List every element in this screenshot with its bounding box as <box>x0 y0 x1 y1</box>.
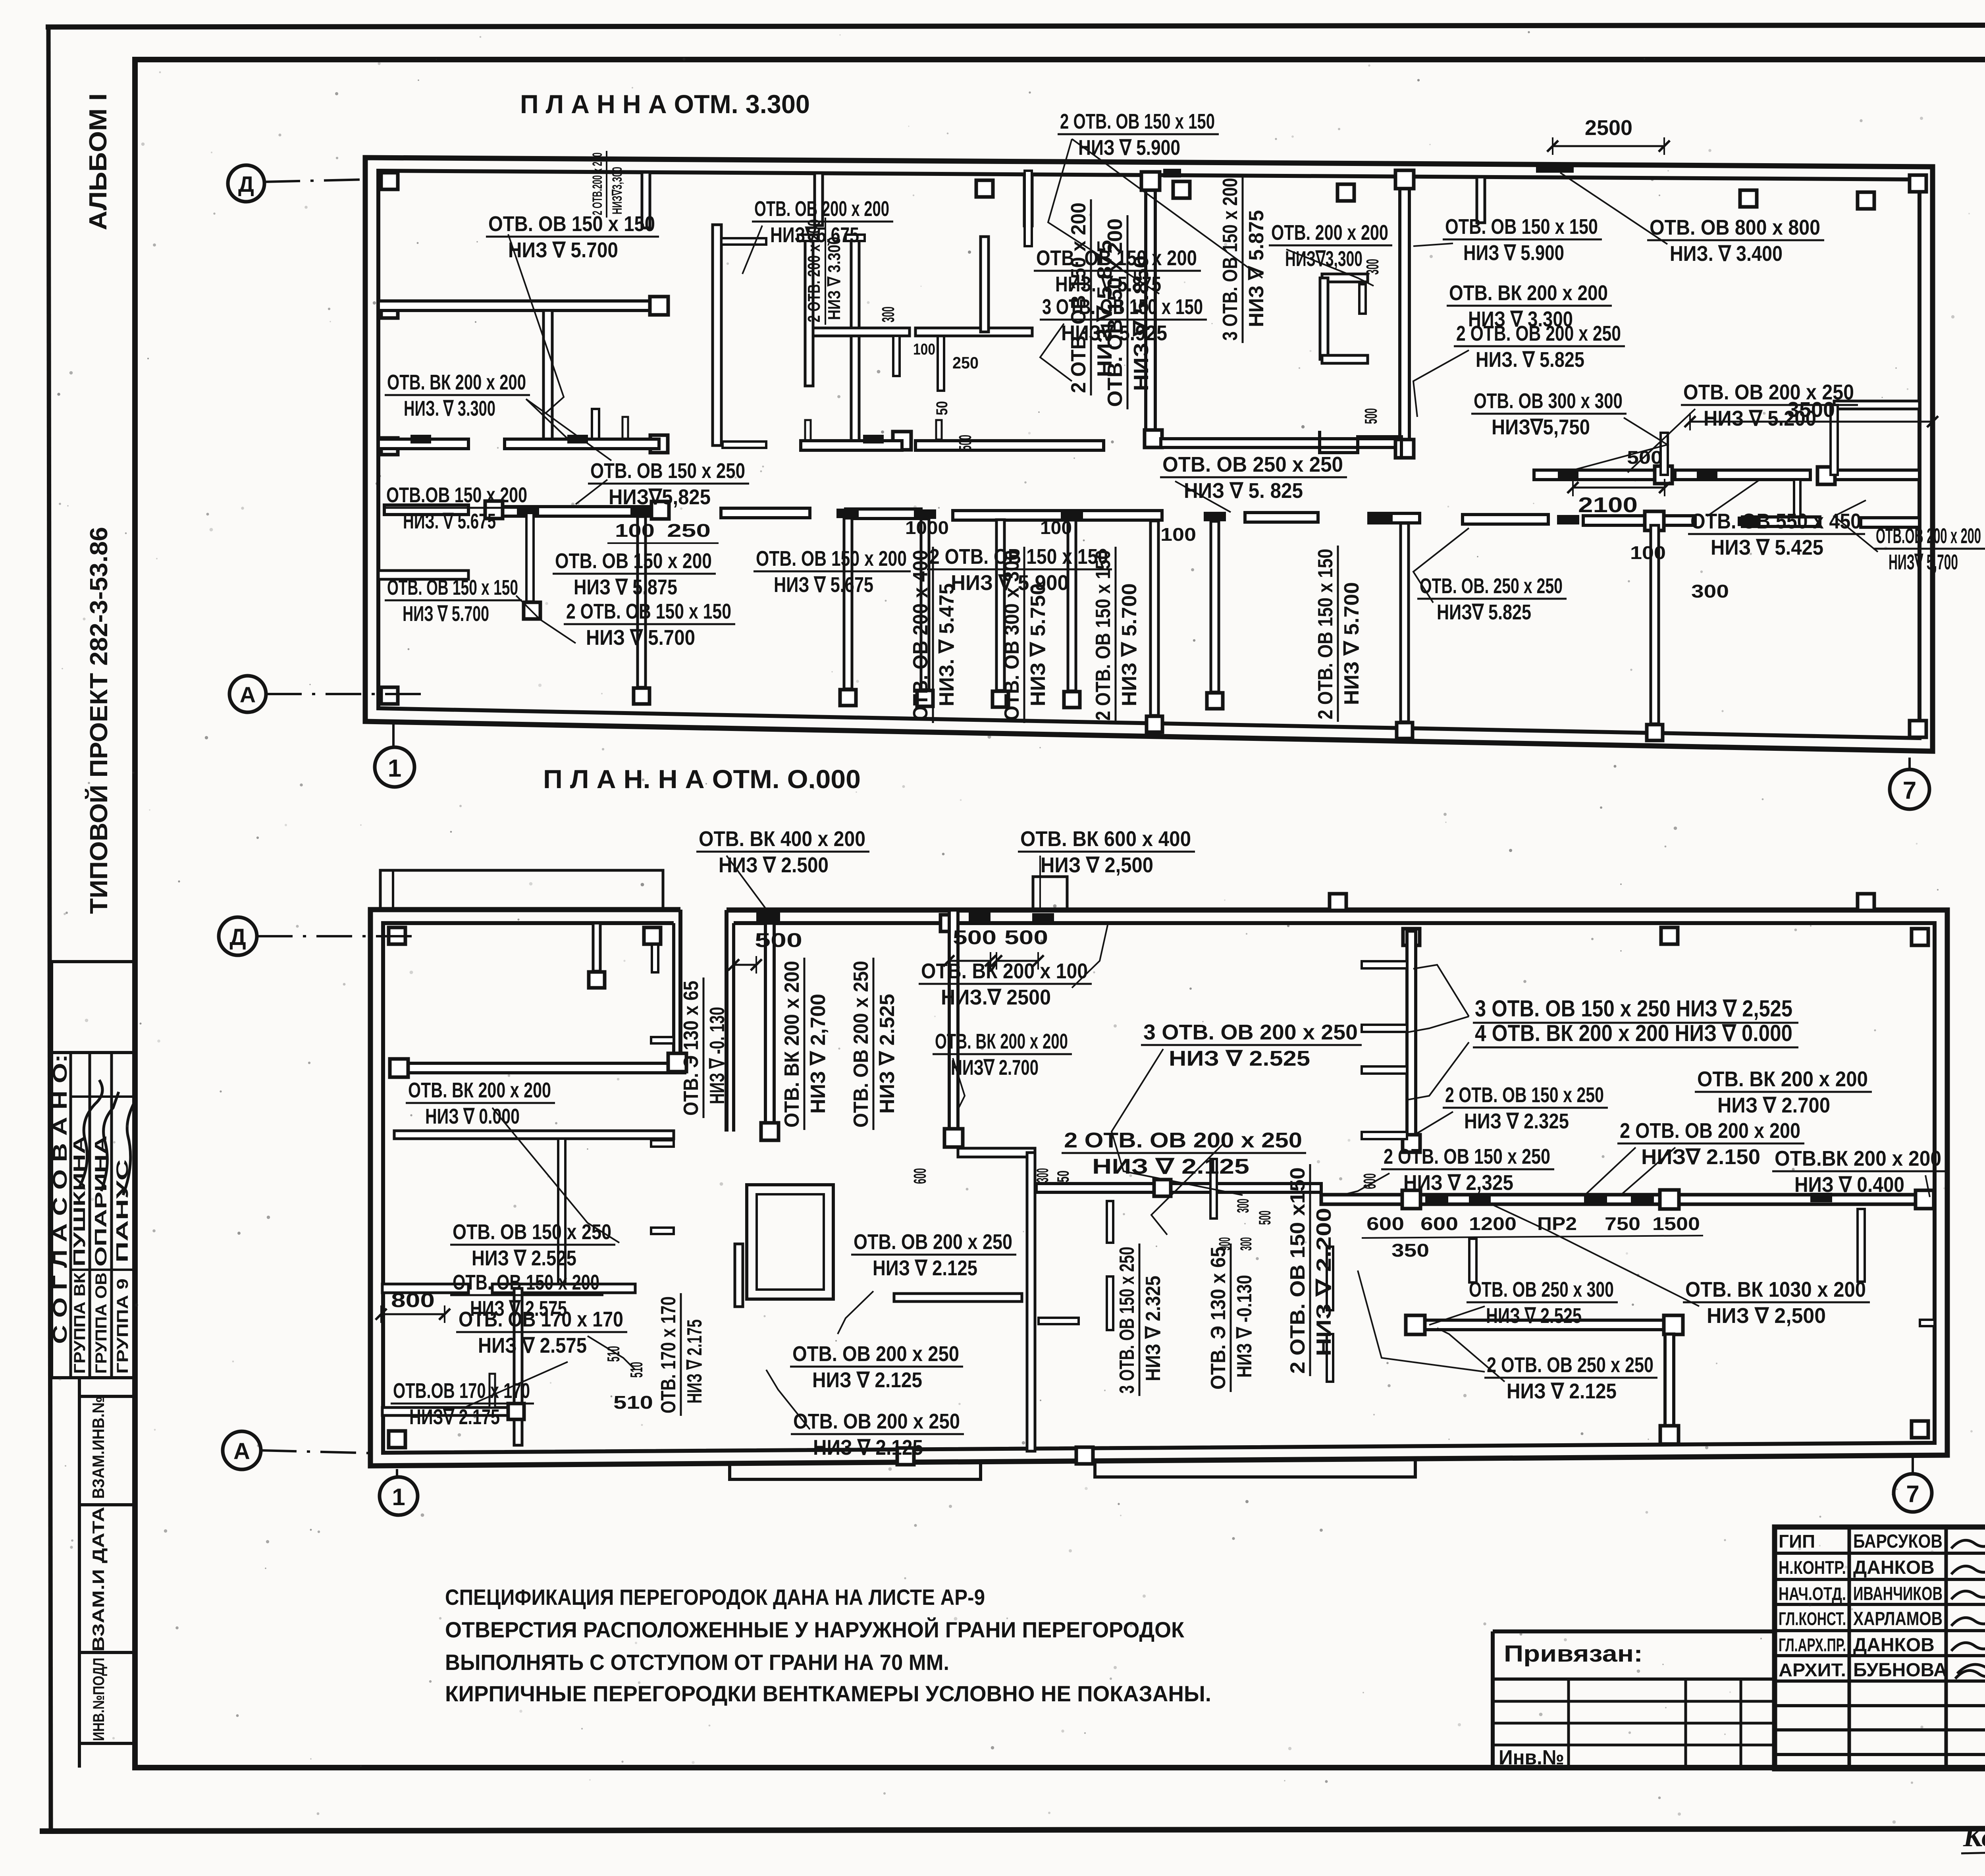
small stubs near H2 <box>592 409 599 440</box>
svg-text:2 ОТВ. ОВ 150 х 150: 2 ОТВ. ОВ 150 х 150 <box>566 600 731 623</box>
svg-text:2 ОТВ. ОВ 150 х 150: 2 ОТВ. ОВ 150 х 150 <box>1060 110 1215 133</box>
svg-text:3 ОТВ. ОВ 200 х 250: 3 ОТВ. ОВ 200 х 250 <box>1143 1020 1358 1044</box>
dim 2100 <box>1573 487 1665 489</box>
svg-text:НИЗ ∇ 5. 825: НИЗ ∇ 5. 825 <box>1184 479 1303 503</box>
svg-text:500: 500 <box>953 926 996 949</box>
svg-text:ОТВ. ОВ 150 х 150: ОТВ. ОВ 150 х 150 <box>488 212 655 236</box>
wall V from H1 down <box>543 310 552 443</box>
svg-text:ОТВ. ВК 200 х 100: ОТВ. ВК 200 х 100 <box>921 959 1088 983</box>
svg-text:600: 600 <box>910 1168 930 1184</box>
svg-text:ГРУППА 9: ГРУППА 9 <box>114 1278 131 1374</box>
svg-text:НИЗ∇ 5.825: НИЗ∇ 5.825 <box>1437 600 1531 624</box>
svg-text:А: А <box>233 1438 250 1464</box>
stub left of V3555 y2430 <box>1362 961 1407 968</box>
svg-text:НИЗ ∇ 2.125: НИЗ ∇ 2.125 <box>1092 1155 1249 1178</box>
svg-text:100: 100 <box>1040 517 1072 538</box>
svg-text:НИЗ ∇ 2.325: НИЗ ∇ 2.325 <box>1464 1109 1569 1133</box>
svg-text:ОТВ. ВК 200 х 200: ОТВ. ВК 200 х 200 <box>935 1030 1068 1053</box>
svg-text:НИЗ ∇ 5.875: НИЗ ∇ 5.875 <box>574 575 677 599</box>
svg-text:ОТВ. ОВ. 250 х 250: ОТВ. ОВ. 250 х 250 <box>1420 574 1563 598</box>
wall H836 left <box>813 328 910 336</box>
svg-text:ТИПОВОЙ ПРОЕКТ 282-3-53.86: ТИПОВОЙ ПРОЕКТ 282-3-53.86 <box>85 527 113 914</box>
H y2903 <box>958 1148 1035 1157</box>
stub below top wall x2590 <box>1024 174 1032 226</box>
paper bottom rough edge <box>40 1828 1985 1831</box>
svg-text:ОТВ. Э 130 х 65: ОТВ. Э 130 х 65 <box>1207 1247 1230 1390</box>
svg-text:300: 300 <box>1691 581 1729 602</box>
corridor upper band <box>378 439 468 449</box>
svg-text:ОТВ. ВК 1030 х 200: ОТВ. ВК 1030 х 200 <box>1685 1278 1866 1301</box>
paper top edge line <box>46 25 1985 27</box>
wall H from V2900 corner <box>1161 439 1407 447</box>
svg-text:100: 100 <box>1160 524 1196 545</box>
svg-text:500: 500 <box>1361 408 1381 424</box>
svg-text:ГЛ.КОНСТ.: ГЛ.КОНСТ. <box>1779 1608 1846 1629</box>
svg-text:СПЕЦИФИКАЦИЯ ПЕРЕГОРОДОК ДАНА: СПЕЦИФИКАЦИЯ ПЕРЕГОРОДОК ДАНА НА ЛИСТЕ А… <box>445 1585 985 1610</box>
svg-text:ОТВ. ОВ 150 х 200: ОТВ. ОВ 150 х 200 <box>1104 218 1127 407</box>
svg-text:НИЗ ∇ 2.525: НИЗ ∇ 2.525 <box>472 1246 576 1270</box>
H divider y2858 <box>394 1131 674 1139</box>
svg-text:ИНВ.№ПОДЛ: ИНВ.№ПОДЛ <box>90 1658 108 1741</box>
corridor opening mark <box>1061 511 1083 520</box>
corridor opening mark <box>1469 1195 1491 1205</box>
svg-text:2 ОТВ. ОВ 150 х 250: 2 ОТВ. ОВ 150 х 250 <box>1445 1083 1604 1107</box>
svg-text:300: 300 <box>879 307 898 322</box>
svg-text:НИЗ ∇ 2,700: НИЗ ∇ 2,700 <box>807 994 830 1114</box>
block1 right wall outer <box>678 910 682 1068</box>
corridor wall mid <box>1036 1184 1321 1192</box>
H y3337 <box>1415 1320 1673 1330</box>
svg-text:АРХИТ.: АРХИТ. <box>1779 1660 1846 1680</box>
column squares top plan <box>381 173 398 189</box>
svg-text:НИЗ. ∇ 3.400: НИЗ. ∇ 3.400 <box>1670 242 1783 266</box>
V x1305 down <box>514 1288 522 1445</box>
corridor opening mark <box>1810 1193 1832 1202</box>
svg-text:ВЫПОЛНЯТЬ С ОТСТУПОМ ОТ ГРАНИ: ВЫПОЛНЯТЬ С ОТСТУПОМ ОТ ГРАНИ НА 70 ММ. <box>445 1650 949 1675</box>
stub left of V3555 y2860 <box>1362 1132 1407 1139</box>
svg-text:Д: Д <box>229 924 246 950</box>
axis Д circle <box>228 165 264 202</box>
svg-text:ОТВ. 200 х 200: ОТВ. 200 х 200 <box>1271 221 1388 245</box>
svg-text:2 ОТВ. ОВ 150 х 250: 2 ОТВ. ОВ 150 х 250 <box>1384 1145 1550 1168</box>
axis 7 bottom <box>1894 1474 1932 1512</box>
svg-text:АЛЬБОМ I: АЛЬБОМ I <box>85 93 112 230</box>
svg-text:НИЗ ∇ 2.325: НИЗ ∇ 2.325 <box>1142 1276 1165 1381</box>
outer wall <box>370 910 1947 1466</box>
svg-text:500: 500 <box>956 435 975 451</box>
svg-text:БАРСУКОВ: БАРСУКОВ <box>1853 1531 1943 1552</box>
svg-text:НИЗ ∇ 5.200: НИЗ ∇ 5.200 <box>1704 407 1816 430</box>
columns bottom plan <box>389 927 405 944</box>
step room lower <box>1320 431 1401 457</box>
V x3555 <box>1407 931 1416 1143</box>
title block outer <box>1775 1527 1985 1769</box>
opening 800x800 mark <box>1536 162 1574 173</box>
svg-text:НИЗ ∇ 2.125: НИЗ ∇ 2.125 <box>1507 1379 1617 1403</box>
corridor opening mark <box>1584 1194 1607 1204</box>
svg-text:ОТВ. ОВ 250 х 250: ОТВ. ОВ 250 х 250 <box>1162 453 1343 476</box>
H y3245 left <box>382 1284 468 1293</box>
svg-text:ОТВ. ОВ 150 х 200: ОТВ. ОВ 150 х 200 <box>555 549 712 573</box>
room box <box>747 1185 833 1299</box>
sidebar lower cells <box>78 1378 81 1768</box>
corridor opening mark <box>1631 1194 1654 1204</box>
svg-text:600: 600 <box>1366 1213 1404 1234</box>
svg-text:КИРПИЧНЫЕ ПЕРЕГОРОДКИ ВЕНТКАМЕ: КИРПИЧНЫЕ ПЕРЕГОРОДКИ ВЕНТКАМЕРЫ УСЛОВНО… <box>445 1681 1211 1706</box>
svg-text:ДАНКОВ: ДАНКОВ <box>1853 1635 1935 1656</box>
dim 2500 top <box>1553 145 1664 147</box>
svg-text:НИЗ ∇ 5.850: НИЗ ∇ 5.850 <box>1130 255 1153 391</box>
corridor opening mark <box>1370 513 1393 523</box>
svg-text:Д: Д <box>238 172 254 197</box>
wall V3538 <box>1400 178 1409 449</box>
upper corridor opening mark <box>1558 470 1578 479</box>
svg-text:ОТВ. ОВ 150 х 200: ОТВ. ОВ 150 х 200 <box>756 547 907 571</box>
svg-text:ВЗАМ.ИНВ.№: ВЗАМ.ИНВ.№ <box>89 1396 108 1499</box>
svg-text:ОТВ.ОВ 150 х 200: ОТВ.ОВ 150 х 200 <box>386 483 527 507</box>
svg-text:300: 300 <box>1363 259 1382 275</box>
Привязан box <box>1493 1629 1775 1633</box>
svg-text:3 ОТВ. ОВ 150 х 250 НИЗ ∇: 3 ОТВ. ОВ 150 х 250 НИЗ ∇ 2,525 <box>1475 996 1792 1022</box>
svg-text:100: 100 <box>615 520 655 541</box>
stub right of V1806 top <box>721 238 766 245</box>
svg-text:ОТВЕРСТИЯ РАСПОЛОЖЕННЫЕ У НАРУ: ОТВЕРСТИЯ РАСПОЛОЖЕННЫЕ У НАРУЖНОЙ ГРАНИ… <box>445 1617 1185 1642</box>
svg-text:Инв.№: Инв.№ <box>1499 1746 1564 1769</box>
svg-text:НИЗ ∇ 2.525: НИЗ ∇ 2.525 <box>1169 1047 1310 1070</box>
svg-text:100: 100 <box>913 341 935 358</box>
svg-text:НАЧ.ОТД.: НАЧ.ОТД. <box>1779 1583 1846 1604</box>
svg-text:250: 250 <box>952 353 979 372</box>
svg-text:НИЗ ∇ 2.525: НИЗ ∇ 2.525 <box>1486 1304 1582 1328</box>
svg-text:2 ОТВ. ОВ 200 х 250: 2 ОТВ. ОВ 200 х 250 <box>1064 1128 1302 1152</box>
svg-text:2 ОТВ. ОВ 150 х 150: 2 ОТВ. ОВ 150 х 150 <box>1092 550 1115 721</box>
svg-text:НИЗ ∇ 2.575: НИЗ ∇ 2.575 <box>478 1334 587 1357</box>
svg-text:С О Г Л А С О В А Н О:: С О Г Л А С О В А Н О: <box>49 1054 71 1344</box>
svg-text:НИЗ ∇ 2.175: НИЗ ∇ 2.175 <box>683 1319 706 1404</box>
svg-text:ОТВ. ВК 200 х 200: ОТВ. ВК 200 х 200 <box>1449 281 1608 305</box>
stub left of V3555 y2590 <box>1362 1025 1407 1032</box>
stub below top wall x3730 <box>1477 177 1485 223</box>
svg-text:ОТВ. ОВ 170 х 170: ОТВ. ОВ 170 х 170 <box>459 1307 623 1331</box>
svg-text:НИЗ ∇ 2.200: НИЗ ∇ 2.200 <box>1312 1208 1336 1356</box>
corridor opening mark <box>630 507 653 517</box>
signatures in title block <box>1951 1534 1985 1548</box>
svg-text:2 ОТВ.200 х 200: 2 ОТВ.200 х 200 <box>590 152 605 215</box>
svg-text:ОТВ. ОВ 150 х 250: ОТВ. ОВ 150 х 250 <box>453 1220 611 1244</box>
wall V 1806 <box>713 225 721 445</box>
stub below top wall x1627 <box>642 172 650 228</box>
svg-text:350: 350 <box>1391 1240 1429 1261</box>
V x2402 <box>949 910 958 1129</box>
svg-text:2 ОТВ. ОВ 200 х 250: 2 ОТВ. ОВ 200 х 250 <box>1456 322 1621 345</box>
axis А circle <box>229 676 266 712</box>
upper corridor opening mark <box>863 435 884 443</box>
svg-text:2 ОТВ. 200 х 200: 2 ОТВ. 200 х 200 <box>804 219 824 322</box>
svg-text:2100: 2100 <box>1578 493 1638 517</box>
svg-text:ГРУППА ОВ: ГРУППА ОВ <box>93 1273 110 1374</box>
axis 1 bottom <box>380 1477 418 1515</box>
stub below top wall x2062 <box>815 173 823 226</box>
svg-text:1500: 1500 <box>1652 1213 1700 1234</box>
wall H2 <box>505 439 660 449</box>
svg-text:ОТВ. ОВ 200 х 250: ОТВ. ОВ 200 х 250 <box>1683 380 1854 404</box>
svg-text:1: 1 <box>392 1484 405 1510</box>
wall H836 right <box>915 328 1032 336</box>
svg-text:ОТВ. ОВ 300 х 300: ОТВ. ОВ 300 х 300 <box>1000 550 1023 721</box>
svg-text:3 ОТВ. ОВ 150 х 250: 3 ОТВ. ОВ 150 х 250 <box>1116 1247 1139 1394</box>
svg-text:НИЗ ∇ 2.525: НИЗ ∇ 2.525 <box>876 994 899 1114</box>
room wall H1 <box>378 301 659 310</box>
stub below top wall <box>593 923 600 971</box>
svg-text:ОТВ. ОВ 150 х 250: ОТВ. ОВ 150 х 250 <box>590 459 745 483</box>
far right room walls <box>1834 401 1919 409</box>
svg-text:2 ОТВ. ОВ 150 х 150: 2 ОТВ. ОВ 150 х 150 <box>1314 549 1337 719</box>
svg-text:500: 500 <box>755 929 802 951</box>
svg-text:250: 250 <box>667 520 711 541</box>
svg-text:НИЗ∇ 2.150: НИЗ∇ 2.150 <box>1641 1145 1760 1169</box>
svg-text:НИЗ ∇ 2.125: НИЗ ∇ 2.125 <box>873 1256 977 1280</box>
svg-text:НИЗ ∇ 5.700: НИЗ ∇ 5.700 <box>586 626 695 650</box>
vestibule box above top wall <box>1033 877 1067 910</box>
svg-text:БУБНОВА: БУБНОВА <box>1853 1660 1947 1681</box>
corridor opening mark <box>1557 515 1579 524</box>
svg-text:ОТВ. ВК 200 х 200: ОТВ. ВК 200 х 200 <box>1697 1067 1868 1091</box>
svg-text:НИЗ∇3,300: НИЗ∇3,300 <box>610 167 625 214</box>
svg-text:ГЛ.АРХ.ПР.: ГЛ.АРХ.ПР. <box>1779 1635 1846 1655</box>
svg-text:300: 300 <box>1033 1168 1052 1182</box>
inner wall line <box>383 923 1935 1453</box>
svg-text:НИЗ ∇ -0.130: НИЗ ∇ -0.130 <box>1233 1275 1256 1378</box>
svg-text:ОТВ. ОВ 200 х 250: ОТВ. ОВ 200 х 250 <box>793 1409 960 1433</box>
svg-text:300: 300 <box>1233 1199 1252 1213</box>
left wall stub y1445 <box>378 571 468 579</box>
axis Д bottom plan <box>219 917 257 955</box>
svg-text:2 ОТВ. ОВ 200 х 200: 2 ОТВ. ОВ 200 х 200 <box>1620 1119 1800 1143</box>
long wall V2900 <box>1146 179 1155 439</box>
svg-text:3 ОТВ. ОВ 150 х 200: 3 ОТВ. ОВ 150 х 200 <box>1219 178 1242 341</box>
svg-text:НИЗ∇ 2.700: НИЗ∇ 2.700 <box>951 1056 1039 1080</box>
svg-text:4 ОТВ. ВК 200 х 200 НИЗ ∇: 4 ОТВ. ВК 200 х 200 НИЗ ∇ 0.000 <box>1475 1020 1792 1046</box>
svg-text:2 ОТВ. ОВ 250 х 250: 2 ОТВ. ОВ 250 х 250 <box>1487 1353 1654 1377</box>
svg-text:НИЗ∇5,825: НИЗ∇5,825 <box>609 485 711 509</box>
svg-text:600: 600 <box>1420 1213 1458 1234</box>
svg-text:ОТВ. ОВ 200 х 250: ОТВ. ОВ 200 х 250 <box>792 1342 959 1366</box>
svg-text:НИЗ ∇ 5.900: НИЗ ∇ 5.900 <box>1463 241 1564 265</box>
corridor wall right block <box>1321 1195 1930 1204</box>
V x1939 <box>765 923 774 1132</box>
H y3245 right <box>492 1284 635 1293</box>
svg-text:1000: 1000 <box>905 517 949 538</box>
svg-text:50: 50 <box>1054 1170 1072 1182</box>
door stub b <box>1107 1276 1113 1330</box>
svg-text:НИЗ∇ 2.175: НИЗ∇ 2.175 <box>409 1405 500 1429</box>
svg-text:НИЗ ∇ 2.500: НИЗ ∇ 2.500 <box>719 853 829 877</box>
svg-text:ОТВ. ОВ 150 х 150: ОТВ. ОВ 150 х 150 <box>1445 215 1598 239</box>
upper corridor opening mark <box>410 435 431 443</box>
svg-text:ОТВ. ОВ 800 х 800: ОТВ. ОВ 800 х 800 <box>1650 216 1820 239</box>
svg-text:ОТВ.ВК 200 х 200: ОТВ.ВК 200 х 200 <box>1775 1147 1941 1170</box>
svg-text:50: 50 <box>933 401 951 415</box>
svg-text:ОТВ. Э 130 х 65: ОТВ. Э 130 х 65 <box>680 981 703 1116</box>
svg-text:НИЗ ∇ 5.700: НИЗ ∇ 5.700 <box>1340 582 1363 705</box>
corridor opening mark <box>836 509 859 518</box>
wall V2154 <box>851 241 859 443</box>
small stub right of central wall <box>1039 1318 1079 1324</box>
title block left columns <box>1848 1527 1851 1769</box>
svg-text:НИЗ.∇ 2500: НИЗ.∇ 2500 <box>941 985 1051 1009</box>
svg-text:ОТВ.ОВ 170 х 170: ОТВ.ОВ 170 х 170 <box>393 1379 530 1403</box>
dim 3500 <box>1690 421 1933 423</box>
envelope bottom plan <box>370 910 680 1068</box>
svg-text:НИЗ ∇ 5.700: НИЗ ∇ 5.700 <box>403 602 489 626</box>
corridor opening mark <box>517 506 539 516</box>
wall under 170x170 labels <box>382 1407 516 1415</box>
wall right of room box <box>894 1294 1022 1301</box>
svg-text:750: 750 <box>1605 1213 1640 1234</box>
svg-text:НИЗ ∇ 5.675: НИЗ ∇ 5.675 <box>774 573 873 597</box>
svg-text:500: 500 <box>1255 1211 1274 1225</box>
U room near V3538 <box>1322 274 1368 282</box>
svg-text:НИЗ∇5,750: НИЗ∇5,750 <box>1492 415 1590 439</box>
stub below corridor x1335 <box>526 513 534 602</box>
svg-text:ВЗАМ.И ДАТА: ВЗАМ.И ДАТА <box>89 1507 108 1652</box>
canopy thin rect top-left <box>380 870 663 910</box>
dark openings top wall bottom plan <box>756 912 780 922</box>
svg-text:ОТВ. ОВ 550 х 450: ОТВ. ОВ 550 х 450 <box>1690 509 1861 533</box>
svg-text:П Л А Н. Н А ОТМ. О.000: П Л А Н. Н А ОТМ. О.000 <box>543 764 861 794</box>
svg-text:НИЗ∇ 5,700: НИЗ∇ 5,700 <box>1889 550 1958 574</box>
small stubs left block right side <box>651 1037 674 1043</box>
V x4205 down <box>1665 1334 1674 1429</box>
H divider y2690 <box>391 1063 685 1073</box>
upper corridor opening mark <box>1697 470 1717 479</box>
svg-text:1200: 1200 <box>1469 1213 1517 1234</box>
upper corridor opening mark <box>567 435 588 443</box>
outer wall envelope <box>365 158 1933 751</box>
svg-text:7: 7 <box>1906 1481 1919 1507</box>
svg-text:ОТВ. ОВ 200 х 250: ОТВ. ОВ 200 х 250 <box>854 1230 1012 1254</box>
door stub a <box>1107 1201 1113 1243</box>
corridor opening mark <box>1738 517 1760 526</box>
corridor lower band <box>384 505 468 515</box>
entrance tabs bottom <box>730 1462 981 1479</box>
corridor opening mark <box>1425 1195 1448 1205</box>
svg-text:ОТВ. ОВ 150 х 150: ОТВ. ОВ 150 х 150 <box>387 576 518 600</box>
svg-text:ОТВ. ОВ 200 х 200: ОТВ. ОВ 200 х 200 <box>754 197 889 221</box>
svg-text:НИЗ. ∇ 5.475: НИЗ. ∇ 5.475 <box>935 583 958 706</box>
svg-text:НИЗ ∇ 2.125: НИЗ ∇ 2.125 <box>813 1436 923 1460</box>
stub left of V3555 y2695 <box>1362 1066 1407 1074</box>
svg-text:ОТВ. ВК 200 х 200: ОТВ. ВК 200 х 200 <box>781 961 804 1128</box>
svg-text:ОТВ. ВК 200 х 200: ОТВ. ВК 200 х 200 <box>408 1078 551 1102</box>
svg-text:510: 510 <box>613 1392 653 1413</box>
scan speckle noise <box>867 301 870 304</box>
svg-text:НИЗ ∇ 2.700: НИЗ ∇ 2.700 <box>1717 1093 1830 1117</box>
stubs below corridor <box>638 517 646 687</box>
svg-text:НИЗ ∇ 5.750: НИЗ ∇ 5.750 <box>1027 583 1050 706</box>
opening mark <box>1163 169 1181 177</box>
svg-text:НИЗ ∇ 2,325: НИЗ ∇ 2,325 <box>1403 1171 1513 1195</box>
svg-text:2 ОТВ. ОВ 150 х150: 2 ОТВ. ОВ 150 х150 <box>1286 1167 1309 1374</box>
svg-text:НИЗ ∇ 2,500: НИЗ ∇ 2,500 <box>1041 853 1153 877</box>
svg-text:ОТВ. ОВ 250 х 300: ОТВ. ОВ 250 х 300 <box>1469 1278 1614 1301</box>
svg-text:НИЗ ∇ 5.700: НИЗ ∇ 5.700 <box>1118 583 1141 706</box>
svg-text:НИЗ. ∇ 3.300: НИЗ. ∇ 3.300 <box>404 397 495 420</box>
svg-text:ПУШКИНА: ПУШКИНА <box>70 1136 89 1267</box>
svg-text:НИЗ∇3,300: НИЗ∇3,300 <box>1285 247 1363 271</box>
svg-text:7: 7 <box>1903 777 1916 804</box>
svg-text:А: А <box>240 682 256 707</box>
svg-text:НИЗ. ∇ 5.825: НИЗ. ∇ 5.825 <box>1476 348 1584 372</box>
svg-text:НИЗ ∇ 0.400: НИЗ ∇ 0.400 <box>1794 1173 1904 1197</box>
svg-text:ХАРЛАМОВ: ХАРЛАМОВ <box>1853 1608 1943 1629</box>
svg-text:Коп. Оеіїг: Коп. Оеіїг <box>1963 1821 1985 1853</box>
stub right of V1806 bottom <box>723 442 766 448</box>
stub below band1 right <box>1794 480 1800 521</box>
svg-text:ОТВ. ОВ 150 х 200: ОТВ. ОВ 150 х 200 <box>453 1271 599 1294</box>
corridor opening mark <box>1204 512 1226 521</box>
svg-text:НИЗ ∇ -0. 130: НИЗ ∇ -0. 130 <box>706 1007 729 1104</box>
svg-text:ОТВ. ОВ 200 х 400: ОТВ. ОВ 200 х 400 <box>909 550 932 721</box>
svg-text:ОТВ.ОВ 200 х 200: ОТВ.ОВ 200 х 200 <box>1876 524 1981 548</box>
svg-text:800: 800 <box>391 1289 435 1311</box>
svg-text:2500: 2500 <box>1585 116 1632 140</box>
axis 1 circle bottom <box>375 747 414 787</box>
svg-text:ОТВ. 170 х 170: ОТВ. 170 х 170 <box>657 1296 680 1413</box>
svg-text:ОТВ. ВК 200 х 200: ОТВ. ВК 200 х 200 <box>387 370 526 394</box>
svg-text:ОТВ. ОВ 200 х 250: ОТВ. ОВ 200 х 250 <box>850 961 873 1128</box>
svg-text:НИЗ ∇ 2.125: НИЗ ∇ 2.125 <box>812 1368 922 1392</box>
svg-text:ИВАНЧИКОВ: ИВАНЧИКОВ <box>1853 1583 1943 1604</box>
svg-text:300: 300 <box>1237 1237 1255 1251</box>
svg-text:2 ОТВ. ОВ 150 х 200: 2 ОТВ. ОВ 150 х 200 <box>1067 202 1090 393</box>
svg-text:1: 1 <box>388 755 401 782</box>
svg-text:ДАНКОВ: ДАНКОВ <box>1853 1557 1935 1578</box>
svg-text:НИЗ ∇ 3.300: НИЗ ∇ 3.300 <box>825 237 844 320</box>
svg-text:ОТВ. ВК 600 х 400: ОТВ. ВК 600 х 400 <box>1020 827 1191 851</box>
svg-text:НИЗ. ∇ 5.675: НИЗ. ∇ 5.675 <box>403 509 496 533</box>
svg-text:П Л А Н Н А ОТМ. 3.300: П Л А Н Н А ОТМ. 3.300 <box>520 89 810 119</box>
svg-text:НИЗ ∇ 5.900: НИЗ ∇ 5.900 <box>1078 136 1180 160</box>
block2 left wall outer <box>725 910 728 1132</box>
svg-text:100: 100 <box>1630 542 1666 563</box>
sidebar signatures scribbles <box>79 1080 102 1187</box>
svg-text:Н.КОНТР.: Н.КОНТР. <box>1779 1557 1846 1578</box>
svg-text:НИЗ ∇ 2,500: НИЗ ∇ 2,500 <box>1707 1304 1826 1328</box>
svg-text:НИЗ ∇ 5.700: НИЗ ∇ 5.700 <box>508 238 618 262</box>
wall V2038 <box>805 241 813 386</box>
paper left edge line <box>48 27 51 1831</box>
svg-text:ГИП: ГИП <box>1779 1531 1815 1552</box>
svg-text:ОТВ. ОВ 300 х 300: ОТВ. ОВ 300 х 300 <box>1474 389 1623 413</box>
sidebar agreement table <box>52 960 135 963</box>
svg-text:НИЗ ∇ 5.875: НИЗ ∇ 5.875 <box>1245 210 1268 327</box>
axis А bottom plan <box>223 1431 261 1469</box>
V x1415 <box>558 1139 565 1286</box>
svg-text:ГРУППА ВК: ГРУППА ВК <box>71 1272 89 1374</box>
svg-text:ПР2: ПР2 <box>1537 1213 1577 1234</box>
svg-text:НИЗ ∇ 5.425: НИЗ ∇ 5.425 <box>1711 536 1823 559</box>
corridor opening mark <box>914 509 936 519</box>
svg-text:ОТВ. ВК 400 х 200: ОТВ. ВК 400 х 200 <box>699 827 865 851</box>
svg-text:Привязан:: Привязан: <box>1504 1641 1643 1667</box>
axis 7 circle bottom <box>1890 769 1929 809</box>
svg-text:500: 500 <box>1004 926 1048 949</box>
